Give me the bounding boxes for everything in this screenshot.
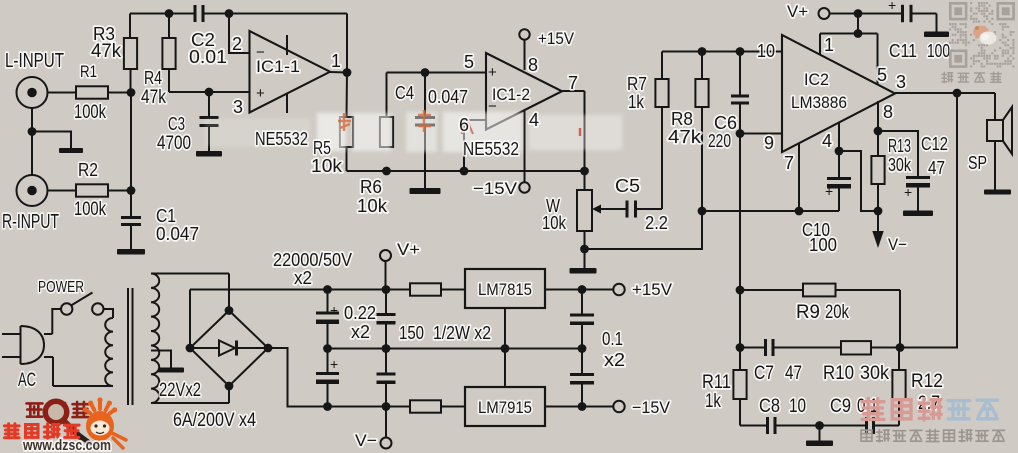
svg-text:C6: C6: [714, 113, 737, 133]
svg-text:−15V: −15V: [632, 398, 671, 417]
svg-text:1: 1: [331, 51, 341, 71]
svg-text:www.dzsc.com: www.dzsc.com: [22, 438, 111, 453]
svg-text:1: 1: [824, 35, 834, 55]
svg-text:NE5532: NE5532: [255, 129, 308, 149]
svg-text:R5: R5: [313, 138, 331, 158]
svg-text:10k: 10k: [542, 213, 567, 233]
svg-text:x2: x2: [351, 322, 370, 342]
svg-text:−: −: [488, 98, 497, 115]
svg-text:SP: SP: [968, 153, 987, 173]
svg-text:−: −: [256, 44, 265, 61]
svg-text:2: 2: [232, 34, 242, 54]
svg-text:1k: 1k: [705, 391, 721, 412]
svg-text:4: 4: [529, 110, 539, 130]
svg-text:9: 9: [764, 133, 774, 153]
svg-text:100: 100: [809, 235, 837, 255]
svg-text:100k: 100k: [74, 102, 106, 123]
svg-text:0.22: 0.22: [344, 303, 376, 323]
svg-text:LM7915: LM7915: [478, 398, 532, 417]
svg-text:C1: C1: [156, 206, 176, 226]
svg-text:0.047: 0.047: [428, 87, 468, 107]
svg-text:R1: R1: [80, 62, 97, 81]
svg-text:x2: x2: [604, 350, 625, 370]
svg-text:V+: V+: [397, 240, 420, 259]
svg-text:NE5532: NE5532: [463, 139, 519, 159]
svg-text:6: 6: [459, 115, 469, 135]
svg-text:3: 3: [233, 97, 243, 117]
svg-text:LM3886: LM3886: [791, 93, 847, 112]
svg-text:C4: C4: [395, 83, 414, 103]
svg-text:+: +: [256, 85, 265, 102]
svg-text:C3: C3: [168, 114, 185, 134]
svg-text:R9: R9: [796, 302, 820, 323]
svg-text:R2: R2: [78, 160, 98, 180]
svg-text:POWER: POWER: [38, 279, 84, 296]
svg-text:10: 10: [789, 396, 806, 417]
svg-text:0.1: 0.1: [602, 329, 623, 349]
svg-text:+15V: +15V: [632, 280, 673, 299]
svg-text:47: 47: [928, 158, 945, 178]
svg-text:C8: C8: [759, 396, 780, 417]
svg-text:4700: 4700: [157, 133, 191, 154]
svg-text:R13: R13: [888, 136, 911, 156]
svg-text:47k: 47k: [668, 127, 702, 147]
svg-text:x2: x2: [294, 268, 312, 288]
svg-text:0.047: 0.047: [156, 224, 199, 244]
svg-text:10k: 10k: [357, 196, 388, 216]
svg-text:C7: C7: [754, 363, 774, 384]
svg-text:8: 8: [883, 102, 893, 122]
svg-text:+: +: [904, 184, 912, 200]
svg-text:20k: 20k: [825, 302, 849, 323]
svg-text:10: 10: [757, 41, 775, 61]
svg-text:4: 4: [822, 131, 832, 151]
svg-text:7: 7: [568, 73, 578, 93]
svg-text:+: +: [825, 183, 833, 199]
svg-text:5: 5: [464, 52, 474, 72]
svg-text:22Vx2: 22Vx2: [159, 380, 201, 401]
svg-text:220: 220: [708, 131, 731, 151]
svg-text:C11: C11: [889, 41, 917, 61]
svg-text:47k: 47k: [141, 87, 166, 108]
svg-text:R10: R10: [823, 363, 854, 384]
svg-text:V−: V−: [888, 235, 907, 254]
svg-text:C9: C9: [830, 396, 851, 417]
svg-text:L-INPUT: L-INPUT: [5, 50, 64, 72]
svg-text:AC: AC: [18, 370, 36, 391]
svg-text:0.01: 0.01: [189, 47, 227, 67]
svg-text:−15V: −15V: [473, 179, 518, 198]
svg-text:1k: 1k: [628, 92, 645, 112]
svg-text:R4: R4: [144, 68, 162, 88]
svg-text:R12: R12: [911, 371, 943, 392]
svg-text:+: +: [330, 356, 338, 372]
svg-text:R-INPUT: R-INPUT: [2, 211, 59, 233]
svg-text:IC2: IC2: [804, 70, 829, 89]
svg-text:LM7815: LM7815: [478, 280, 532, 299]
svg-text:IC1-2: IC1-2: [492, 85, 530, 104]
svg-text:100k: 100k: [74, 199, 106, 220]
svg-text:47: 47: [785, 363, 802, 384]
svg-text:V+: V+: [787, 2, 808, 21]
svg-text:C5: C5: [615, 176, 640, 196]
svg-text:+: +: [488, 64, 497, 81]
svg-text:1/2W x2: 1/2W x2: [433, 323, 491, 343]
svg-text:R8: R8: [671, 109, 693, 129]
svg-text:22000/50V: 22000/50V: [273, 250, 352, 270]
svg-text:100: 100: [927, 41, 950, 61]
svg-text:6A/200V x4: 6A/200V x4: [173, 410, 256, 431]
svg-text:R7: R7: [627, 74, 647, 94]
svg-text:7: 7: [784, 153, 794, 173]
svg-text:30k: 30k: [860, 363, 889, 384]
svg-text:R11: R11: [702, 372, 731, 393]
svg-text:+: +: [888, 0, 896, 13]
svg-text:10k: 10k: [311, 156, 343, 176]
svg-text:V−: V−: [355, 431, 377, 450]
svg-text:47k: 47k: [91, 41, 121, 62]
svg-text:30k: 30k: [888, 155, 912, 175]
svg-text:+15V: +15V: [538, 29, 575, 48]
svg-text:+: +: [330, 302, 338, 318]
svg-text:R6: R6: [360, 177, 382, 197]
svg-text:C12: C12: [921, 134, 948, 154]
svg-text:5: 5: [877, 65, 887, 85]
svg-text:8: 8: [528, 55, 538, 75]
svg-text:2.2: 2.2: [645, 213, 668, 233]
svg-text:150: 150: [399, 323, 424, 343]
svg-text:3: 3: [896, 72, 906, 92]
